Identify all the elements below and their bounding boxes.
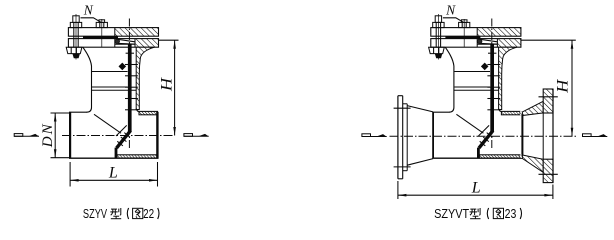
svg-text:L: L bbox=[108, 164, 118, 181]
svg-text:H: H bbox=[159, 76, 176, 92]
svg-text:H: H bbox=[555, 78, 572, 94]
svg-text:22: 22 bbox=[143, 207, 154, 221]
svg-text:SZYVT: SZYVT bbox=[434, 207, 469, 221]
svg-text:23: 23 bbox=[505, 207, 517, 221]
svg-text:L: L bbox=[471, 179, 481, 196]
svg-text:SZYV: SZYV bbox=[83, 207, 108, 221]
